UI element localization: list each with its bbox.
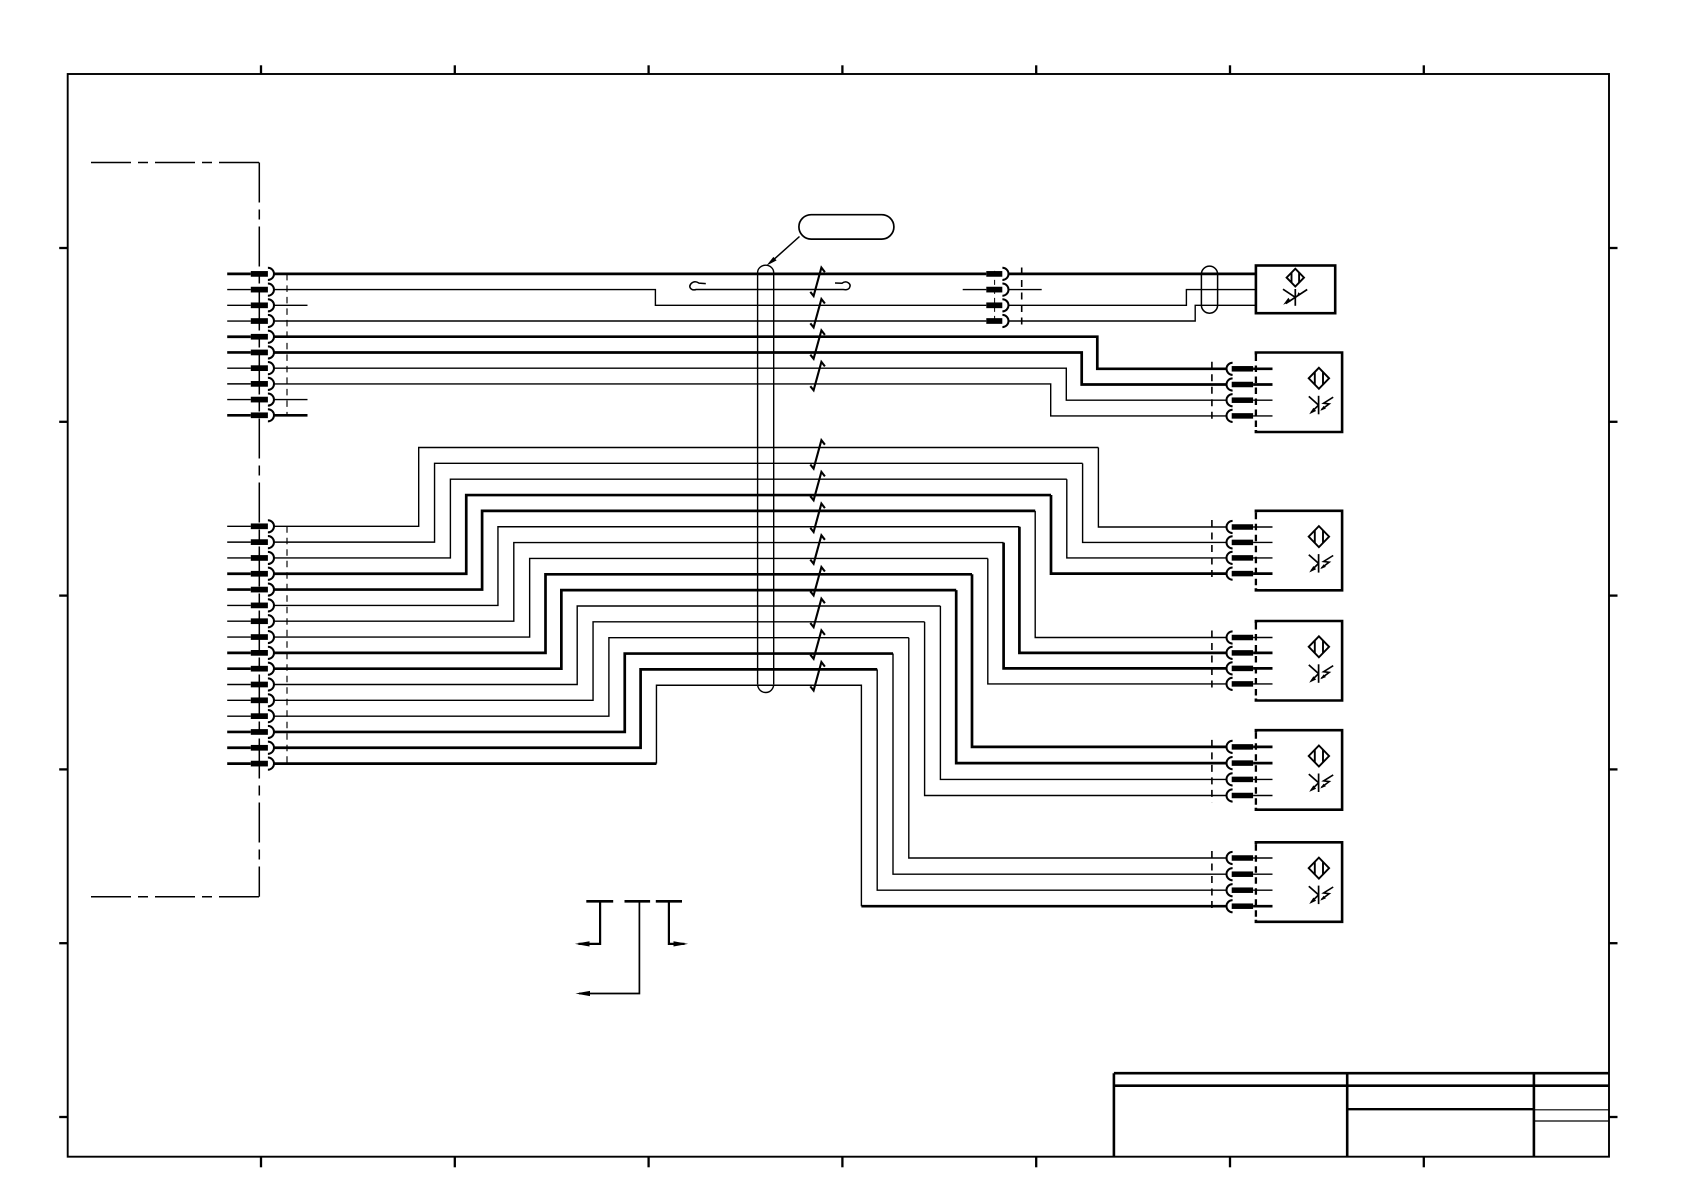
wire group mark 11 [810, 630, 825, 658]
inline connector CN1 pin 4 [986, 315, 1008, 327]
sensor PH6 pin 2 [1227, 868, 1273, 880]
CN1 housing dashed line [994, 271, 996, 324]
wire W20 (P1-20 to sensor PH5-2) [274, 590, 1226, 763]
connector P1 pin 8 [227, 378, 274, 390]
photo sensor PH5 [1256, 730, 1342, 810]
breakout arrow C [656, 901, 688, 946]
cable label balloon with leader arrow [766, 215, 894, 266]
sensor PH2 pin 1 [1227, 363, 1273, 375]
sensor PH2 pin 3 [1227, 394, 1273, 406]
wire W3 stub (P1-3) [274, 304, 307, 306]
sensor PH5 pin 3 [1227, 773, 1273, 785]
connector P1 pin 13 [227, 552, 274, 564]
wire W13 (P1-13 to sensor PH3-3) [274, 479, 1226, 558]
connector P1 pin 3 [227, 299, 274, 311]
connector P1 pin 26 [227, 758, 274, 770]
CN1 mating face dashed line [1021, 268, 1023, 328]
sensor PH2 pin 2 [1227, 378, 1273, 390]
wire W19 (P1-19 to sensor PH5-1) [274, 574, 1226, 747]
breakout arrow A [575, 901, 613, 946]
sensor PH3 pin 1 [1227, 521, 1273, 533]
sensor PH6 pin 1 [1227, 852, 1273, 864]
wire group mark 10 [810, 599, 825, 627]
connector P1 pin 23 [227, 710, 274, 722]
sensor PH6 connector dashed line [1211, 851, 1213, 913]
wire W16 (P1-16 to sensor PH4-2) [274, 527, 1226, 653]
wire group mark 12 [810, 662, 825, 690]
connector P1 pin 10 [227, 409, 274, 421]
sensor PH6 pin 3 [1227, 884, 1273, 896]
photo sensor PH6 [1256, 842, 1342, 922]
wire W23 (P1-23 to sensor PH6-1) [274, 638, 1226, 858]
connector P1 pin 1 [227, 268, 274, 280]
connector P1 pin 19 [227, 647, 274, 659]
sensor PH6 pin 4 [1227, 900, 1273, 912]
wire group mark 5 [810, 440, 825, 468]
wire W10 stub (P1-10) [274, 414, 307, 417]
connector P1 pin 18 [227, 631, 274, 643]
wire W15 (P1-15 to sensor PH4-1) [274, 511, 1226, 638]
photo sensor PH4 [1256, 621, 1342, 701]
ferrite bead FB1 [1201, 266, 1217, 313]
connector P1 pin 6 [227, 346, 274, 358]
connector P1 outline (chain line) [91, 163, 259, 897]
wire W18 (P1-18 to sensor PH4-4) [274, 558, 1226, 683]
connector P1 pin 25 [227, 742, 274, 754]
wire W9 stub (P1-9) [274, 399, 307, 401]
wire W1 (P1-1 to CN1-1, sensor PH1) [274, 273, 1256, 276]
wire W25 (P1-25 to sensor PH6-3) [274, 669, 1226, 890]
wire group mark 9 [810, 567, 825, 595]
inline connector CN1 pin 1 [986, 268, 1008, 280]
connector P1 pin 4 [227, 315, 274, 327]
wire W26 (P1-26 to sensor PH6-4) [274, 685, 1226, 906]
wire W7 (P1-7 to sensor PH2-3) [274, 368, 1226, 400]
connector P1 pin 17 [227, 615, 274, 627]
breakout arrow B [575, 901, 650, 996]
wire W6 (P1-6 to sensor PH2-2) [274, 353, 1226, 385]
wire group mark 2 [810, 299, 825, 327]
inline connector CN1 pin 3 [986, 299, 1008, 311]
wire W5 (P1-5 to sensor PH2-1) [274, 337, 1226, 369]
connector P1 pin 15 [227, 583, 274, 595]
connector P1 pin 16 [227, 599, 274, 611]
wire W4 (P1-4 to CN1-4, sensor PH1) [274, 305, 1256, 321]
connector P1 pin-row dashed line (top group) [286, 274, 288, 415]
wire W14 (P1-14 to sensor PH3-4) [274, 495, 1226, 574]
sensor PH3 connector dashed line [1211, 520, 1213, 581]
shield drain wire (cut ends) [690, 282, 850, 290]
wire W24 (P1-24 to sensor PH6-2) [274, 654, 1226, 875]
wire W11 (P1-11 to sensor PH3-1) [274, 448, 1226, 528]
connector P1 pin 11 [227, 520, 274, 532]
title block [1114, 1073, 1609, 1157]
photo sensor PH2 [1256, 353, 1342, 433]
sensor PH4 connector dashed line [1211, 631, 1213, 691]
photo sensor PH1 [1256, 266, 1335, 314]
sensor PH5 pin 2 [1227, 757, 1273, 769]
wire W12 (P1-12 to sensor PH3-2) [274, 463, 1226, 542]
connector P1 pin 20 [227, 663, 274, 675]
shield drain wire at CN1-2 (floating) [963, 289, 1042, 291]
connector P1 pin 5 [227, 331, 274, 343]
connector P1 pin 9 [227, 393, 274, 405]
connector P1 pin 12 [227, 536, 274, 548]
sensor PH5 pin 1 [1227, 741, 1273, 753]
connector P1 pin-row dashed line (bottom group) [286, 526, 288, 763]
sensor PH2 pin 4 [1227, 410, 1273, 422]
sensor PH5 pin 4 [1227, 789, 1273, 801]
sensor PH3 pin 3 [1227, 552, 1273, 564]
connector P1 pin 21 [227, 678, 274, 690]
sensor PH4 pin 4 [1227, 678, 1273, 690]
inline connector CN1 pin 2 [986, 284, 1008, 296]
wire group mark 1 [810, 268, 825, 296]
wire group mark 8 [810, 535, 825, 563]
connector P1 pin 24 [227, 726, 274, 738]
sensor PH5 connector dashed line [1211, 740, 1213, 803]
connector P1 pin 14 [227, 568, 274, 580]
connector P1 pin 2 [227, 284, 274, 296]
wire group mark 6 [810, 472, 825, 500]
sensor PH4 pin 2 [1227, 647, 1273, 659]
connector P1 pin 7 [227, 362, 274, 374]
wire W21 (P1-21 to sensor PH5-3) [274, 606, 1226, 779]
wire W17 (P1-17 to sensor PH4-3) [274, 543, 1226, 669]
sensor PH3 pin 4 [1227, 568, 1273, 580]
wire group mark 7 [810, 504, 825, 532]
cable bundle (loomed section) [758, 265, 774, 692]
sensor PH2 connector dashed line [1211, 362, 1213, 423]
sensor PH4 pin 3 [1227, 662, 1273, 674]
photo sensor PH3 [1256, 511, 1342, 591]
wire group mark 4 [810, 362, 825, 390]
wire W22 (P1-22 to sensor PH5-4) [274, 622, 1226, 796]
wire W8 (P1-8 to sensor PH2-4) [274, 384, 1226, 416]
wire W2 (P1-2 to CN1-3, sensor PH1) [274, 290, 1256, 306]
wire group mark 3 [810, 330, 825, 358]
sensor PH3 pin 2 [1227, 536, 1273, 548]
sensor PH4 pin 1 [1227, 631, 1273, 643]
connector P1 pin 22 [227, 694, 274, 706]
